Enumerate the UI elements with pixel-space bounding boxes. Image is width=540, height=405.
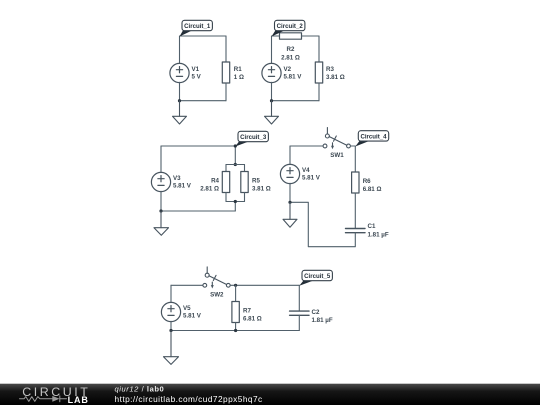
node junction dot R7 bottom <box>234 329 237 332</box>
resistor R6 <box>352 172 359 193</box>
wire R7 bottom lead <box>235 323 237 331</box>
svg-text:qiur12 / lab0: qiur12 / lab0 <box>115 385 165 394</box>
svg-text:V3: V3 <box>173 175 181 182</box>
wire C2 top lead <box>298 285 300 311</box>
resistor R2 <box>280 33 302 39</box>
R6 value label <box>363 178 382 193</box>
wire down to R3 <box>318 36 320 62</box>
wire bottom <box>180 100 227 102</box>
R3 value label <box>326 66 345 81</box>
svg-text:R1: R1 <box>234 66 242 73</box>
node junction dot <box>288 201 291 204</box>
wire V3 bottom lead <box>160 191 162 211</box>
wire bottom <box>161 210 235 212</box>
node junction dot <box>178 99 181 102</box>
svg-text:5 V: 5 V <box>192 74 202 81</box>
svg-text:C1: C1 <box>368 223 376 230</box>
V2 value label <box>284 66 303 81</box>
svg-text:R3: R3 <box>326 66 334 73</box>
label Circuit_4 <box>355 131 388 147</box>
wire R4 top lead <box>225 165 227 172</box>
wire top to switch <box>290 145 323 147</box>
wire R6 to C1 <box>354 193 356 228</box>
svg-text:Circuit_2: Circuit_2 <box>277 23 304 30</box>
logo resistor-diode doodle <box>20 396 67 402</box>
wire R1 bottom lead <box>225 83 227 101</box>
label Circuit_5 <box>299 270 332 286</box>
wire R5 bottom lead <box>244 193 246 202</box>
ground <box>283 202 297 227</box>
svg-text:C2: C2 <box>312 309 320 316</box>
svg-text:5.81 V: 5.81 V <box>284 74 303 81</box>
capacitor C2 <box>290 311 309 315</box>
wire V1 top lead <box>179 36 181 64</box>
wire top bar of parallel pair <box>226 164 245 166</box>
svg-text:Circuit_5: Circuit_5 <box>304 273 331 280</box>
node junction dot parallel bottom <box>234 200 237 203</box>
svg-text:5.81 V: 5.81 V <box>183 313 202 320</box>
svg-text:R5: R5 <box>252 178 260 185</box>
label Circuit_3 <box>235 131 268 146</box>
wire down to R6 <box>354 146 356 172</box>
node junction dot top wire <box>234 144 237 147</box>
svg-text:Circuit_1: Circuit_1 <box>184 23 211 30</box>
svg-text:Circuit_3: Circuit_3 <box>240 134 267 141</box>
wire R5 top lead <box>244 165 246 172</box>
V3 value label <box>173 175 192 190</box>
ground <box>265 101 279 124</box>
wire top <box>161 145 235 147</box>
V5 value label <box>183 305 202 320</box>
wire C2 bottom lead <box>298 315 300 330</box>
wire V5 top lead <box>170 285 172 302</box>
ground <box>173 101 187 124</box>
wire V2 top lead <box>271 36 273 64</box>
svg-text:2.81 Ω: 2.81 Ω <box>281 54 300 61</box>
R4 value label <box>200 178 219 193</box>
svg-text:V1: V1 <box>192 66 200 73</box>
wire switch to C2 branch <box>230 284 299 286</box>
svg-text:1 Ω: 1 Ω <box>234 74 244 81</box>
wire R2 right lead <box>302 35 320 37</box>
svg-text:1.81 µF: 1.81 µF <box>312 317 333 324</box>
svg-text:V2: V2 <box>284 66 292 73</box>
node junction dot parallel top <box>234 163 237 166</box>
voltage source V4 <box>280 164 299 183</box>
svg-text:3.81 Ω: 3.81 Ω <box>252 185 271 192</box>
voltage source V5 <box>161 302 180 321</box>
wire V4 top lead <box>289 146 291 165</box>
switch SW2 <box>203 267 230 289</box>
svg-text:V4: V4 <box>302 167 310 174</box>
wire R1 top lead <box>225 36 227 62</box>
V1 value label <box>192 66 202 81</box>
wire from node down to parallel pair <box>234 146 236 165</box>
svg-text:SW2: SW2 <box>210 291 224 298</box>
node junction dot V5 bottom <box>169 329 172 332</box>
node junction dot <box>270 99 273 102</box>
svg-text:http://circuitlab.com/cud72ppx: http://circuitlab.com/cud72ppx5hq7c <box>115 394 263 404</box>
wire V2 bottom lead <box>271 82 273 100</box>
svg-text:6.81 Ω: 6.81 Ω <box>363 186 382 193</box>
svg-text:Circuit_4: Circuit_4 <box>360 133 387 140</box>
R5 value label <box>252 178 271 193</box>
wire bottom <box>272 100 320 102</box>
svg-text:V5: V5 <box>183 305 191 312</box>
voltage source V1 <box>170 63 189 82</box>
wire R3 bottom lead <box>318 83 320 101</box>
R2 value label <box>281 46 300 61</box>
svg-text:5.81 V: 5.81 V <box>302 175 321 182</box>
label Circuit_1 <box>180 20 213 36</box>
V4 value label <box>302 167 321 182</box>
node junction dot <box>159 209 162 212</box>
switch SW1 <box>323 128 350 150</box>
resistor R1 <box>222 62 229 83</box>
svg-text:3.81 Ω: 3.81 Ω <box>326 74 345 81</box>
svg-text:5.81 V: 5.81 V <box>173 183 192 190</box>
wire V5 bottom lead <box>170 321 172 330</box>
wire R4 bottom lead <box>225 193 227 202</box>
R1 value label <box>234 66 244 81</box>
svg-text:6.81 Ω: 6.81 Ω <box>243 315 262 322</box>
svg-text:R4: R4 <box>211 178 219 185</box>
resistor R4 <box>222 172 229 193</box>
svg-text:LAB: LAB <box>68 395 89 405</box>
wire V3 top lead <box>160 146 162 173</box>
wire switch to node <box>350 145 355 147</box>
voltage source V2 <box>262 63 281 82</box>
label Circuit_2 <box>272 20 305 36</box>
svg-text:R6: R6 <box>363 178 371 185</box>
resistor R7 <box>232 302 239 323</box>
wire from parallel pair down <box>234 202 236 212</box>
wire top: node to R1 top <box>180 35 227 37</box>
C1 value label <box>368 223 389 238</box>
svg-text:2.81 Ω: 2.81 Ω <box>200 185 219 192</box>
svg-text:1.81 µF: 1.81 µF <box>368 232 389 239</box>
R7 value label <box>243 308 262 323</box>
voltage source V3 <box>151 172 170 191</box>
capacitor C1 <box>346 229 366 233</box>
wire bottom bar of parallel pair <box>226 201 245 203</box>
ground <box>154 211 169 235</box>
resistor R3 <box>315 62 322 83</box>
svg-text:R2: R2 <box>287 46 295 53</box>
node junction dot R7 top <box>234 284 237 287</box>
resistor R5 <box>241 172 248 193</box>
svg-text:R7: R7 <box>243 308 251 315</box>
ground <box>164 331 179 365</box>
wire V1 bottom lead <box>179 82 181 100</box>
svg-text:SW1: SW1 <box>330 152 344 159</box>
wire V4 bottom lead <box>289 183 291 202</box>
C2 value label <box>312 309 333 324</box>
wire top to switch <box>171 284 203 286</box>
wire R7 top lead <box>235 285 237 301</box>
wire C1 bottom loop back <box>290 202 355 246</box>
wire node to R2 left lead <box>272 35 280 37</box>
wire bottom <box>171 330 299 332</box>
